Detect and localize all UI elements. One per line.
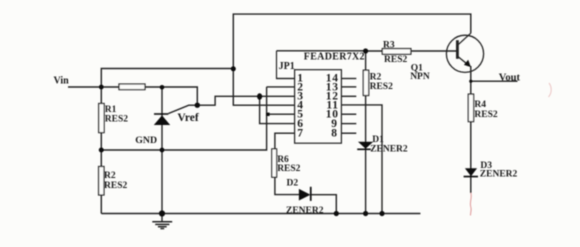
svg-text:ZENER2: ZENER2 xyxy=(370,145,408,155)
svg-text:R2: R2 xyxy=(104,171,116,181)
svg-text:7: 7 xyxy=(297,128,303,140)
svg-text:RES2: RES2 xyxy=(105,115,128,125)
svg-text:Vin: Vin xyxy=(54,76,70,87)
svg-text:Vref: Vref xyxy=(177,112,198,124)
svg-text:R3: R3 xyxy=(383,41,395,51)
svg-text:R1: R1 xyxy=(105,105,117,115)
svg-text:D2: D2 xyxy=(287,179,299,189)
svg-text:R4: R4 xyxy=(474,100,486,110)
svg-text:FEADER7X2: FEADER7X2 xyxy=(304,51,365,62)
svg-text:Vout: Vout xyxy=(499,72,521,83)
svg-text:D1: D1 xyxy=(372,135,384,145)
svg-text:RES2: RES2 xyxy=(370,82,393,92)
svg-text:GND: GND xyxy=(135,135,157,146)
svg-text:NPN: NPN xyxy=(410,72,430,82)
svg-text:RES2: RES2 xyxy=(474,110,497,120)
svg-text:ZENER2: ZENER2 xyxy=(480,170,518,180)
svg-text:JP1: JP1 xyxy=(279,61,295,72)
svg-text:ZENER2: ZENER2 xyxy=(286,206,324,216)
svg-text:RES2: RES2 xyxy=(277,164,300,174)
svg-text:RES2: RES2 xyxy=(384,55,407,65)
svg-text:8: 8 xyxy=(331,128,338,140)
svg-text:RES2: RES2 xyxy=(104,181,127,191)
